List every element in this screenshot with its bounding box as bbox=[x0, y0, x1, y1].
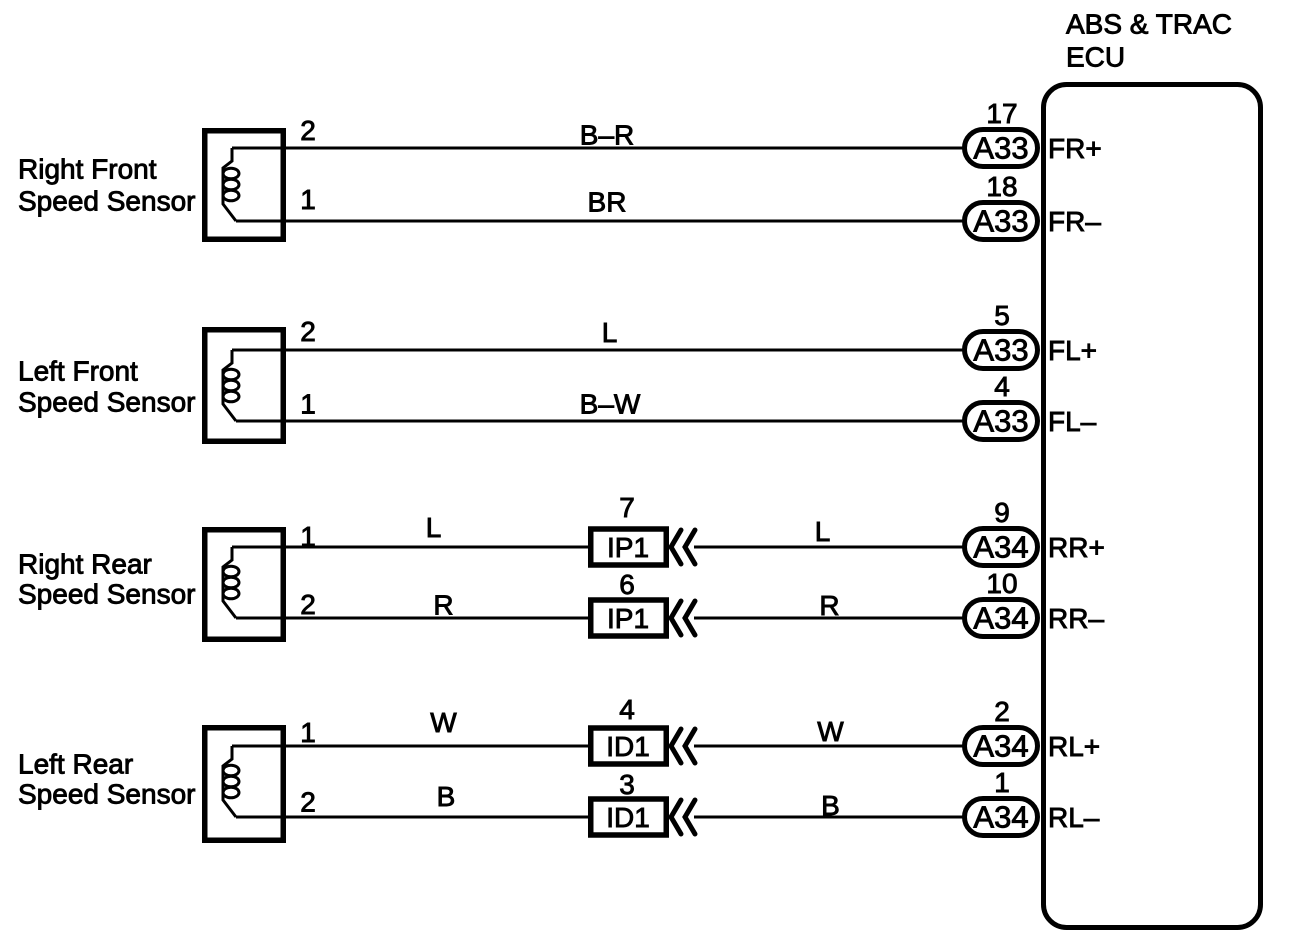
svg-text:L: L bbox=[602, 317, 618, 348]
svg-text:B: B bbox=[437, 781, 456, 812]
svg-text:R: R bbox=[433, 590, 453, 621]
svg-text:Speed Sensor: Speed Sensor bbox=[18, 779, 195, 810]
svg-text:Left Front: Left Front bbox=[18, 356, 138, 387]
svg-text:1: 1 bbox=[300, 521, 316, 552]
svg-text:FR+: FR+ bbox=[1048, 133, 1102, 164]
svg-text:ABS & TRAC: ABS & TRAC bbox=[1066, 9, 1232, 40]
svg-text:L: L bbox=[815, 516, 831, 547]
svg-text:1: 1 bbox=[300, 717, 316, 748]
svg-text:A34: A34 bbox=[973, 729, 1028, 764]
svg-text:5: 5 bbox=[994, 300, 1010, 331]
svg-text:FL–: FL– bbox=[1048, 406, 1097, 437]
svg-text:1: 1 bbox=[300, 184, 316, 215]
svg-text:6: 6 bbox=[619, 569, 635, 600]
svg-text:IP1: IP1 bbox=[607, 532, 649, 563]
svg-text:A33: A33 bbox=[973, 333, 1028, 368]
svg-text:FL+: FL+ bbox=[1048, 335, 1097, 366]
svg-text:L: L bbox=[426, 512, 442, 543]
svg-text:4: 4 bbox=[619, 694, 635, 725]
svg-text:1: 1 bbox=[300, 389, 316, 420]
svg-text:A34: A34 bbox=[973, 800, 1028, 835]
svg-text:Speed Sensor: Speed Sensor bbox=[18, 579, 195, 610]
svg-text:17: 17 bbox=[986, 98, 1017, 129]
svg-text:B–R: B–R bbox=[580, 120, 634, 151]
svg-text:RL–: RL– bbox=[1048, 802, 1100, 833]
svg-text:7: 7 bbox=[619, 492, 635, 523]
svg-text:FR–: FR– bbox=[1048, 206, 1101, 237]
svg-text:2: 2 bbox=[300, 316, 316, 347]
svg-text:BR: BR bbox=[588, 187, 627, 218]
svg-text:Right Rear: Right Rear bbox=[18, 549, 152, 580]
svg-text:W: W bbox=[817, 716, 844, 747]
svg-text:RR+: RR+ bbox=[1048, 532, 1105, 563]
svg-text:10: 10 bbox=[986, 568, 1017, 599]
svg-text:B–W: B–W bbox=[580, 389, 641, 420]
svg-text:W: W bbox=[430, 707, 457, 738]
svg-text:9: 9 bbox=[994, 497, 1010, 528]
svg-text:A33: A33 bbox=[973, 404, 1028, 439]
svg-text:Left Rear: Left Rear bbox=[18, 749, 133, 780]
svg-text:1: 1 bbox=[994, 767, 1010, 798]
svg-text:RL+: RL+ bbox=[1048, 731, 1100, 762]
svg-text:RR–: RR– bbox=[1048, 603, 1104, 634]
svg-text:2: 2 bbox=[994, 696, 1010, 727]
svg-text:A33: A33 bbox=[973, 204, 1028, 239]
svg-text:B: B bbox=[821, 790, 840, 821]
svg-text:2: 2 bbox=[300, 115, 316, 146]
svg-text:A33: A33 bbox=[973, 131, 1028, 166]
svg-text:2: 2 bbox=[300, 787, 316, 818]
svg-text:Speed Sensor: Speed Sensor bbox=[18, 186, 195, 217]
svg-text:18: 18 bbox=[986, 171, 1017, 202]
svg-text:IP1: IP1 bbox=[607, 603, 649, 634]
svg-text:4: 4 bbox=[994, 371, 1010, 402]
svg-text:3: 3 bbox=[619, 769, 635, 800]
svg-text:A34: A34 bbox=[973, 530, 1028, 565]
svg-text:A34: A34 bbox=[973, 601, 1028, 636]
svg-text:ECU: ECU bbox=[1066, 42, 1125, 73]
svg-text:2: 2 bbox=[300, 589, 316, 620]
svg-text:ID1: ID1 bbox=[606, 731, 650, 762]
svg-text:Right Front: Right Front bbox=[18, 154, 157, 185]
svg-text:ID1: ID1 bbox=[606, 802, 650, 833]
svg-text:Speed Sensor: Speed Sensor bbox=[18, 387, 195, 418]
svg-text:R: R bbox=[819, 590, 839, 621]
